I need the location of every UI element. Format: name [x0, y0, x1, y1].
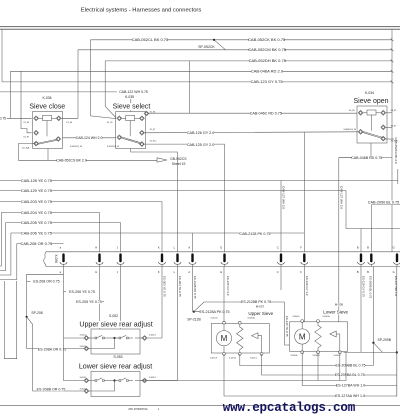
svg-text:M-036: M-036: [335, 303, 344, 307]
terminal 85 K-036: [56, 116, 61, 121]
svg-text:X-457-B: X-457-B: [229, 358, 237, 360]
wire drop pin H: [99, 213, 101, 252]
label K-036: [42, 96, 52, 100]
relay coil K-036: [43, 116, 52, 121]
label ES-206: [69, 290, 95, 294]
label ES-127AA: [336, 394, 364, 398]
svg-text:G: G: [393, 245, 395, 249]
svg-text:H: H: [95, 270, 97, 274]
junction right low: [396, 351, 398, 353]
svg-text:ES-208B OR 0.75: ES-208B OR 0.75: [37, 387, 66, 391]
label CAB-205 YE 0.75: [21, 221, 52, 225]
wire left riser b to K-036 87: [21, 71, 32, 133]
footer rule: [0, 404, 400, 406]
junction S-053: [113, 379, 115, 381]
motor box M-036: [290, 322, 348, 352]
wire drop pin A: [192, 233, 194, 252]
svg-text:A: A: [188, 270, 190, 274]
svg-text:CAB-208 OR 0.75: CAB-208 OR 0.75: [21, 241, 54, 246]
motor symbol M-037: [216, 331, 231, 346]
svg-text:X-656-A: X-656-A: [323, 315, 331, 318]
wire pin C drop: [280, 267, 282, 291]
wire K-034 87A out: [385, 138, 394, 140]
wire ES-209B drop: [372, 267, 374, 366]
svg-text:X-652-2: X-652-2: [80, 346, 87, 348]
terminal 87 K-035: [140, 130, 145, 135]
wire riser e diagonal to K-035: [105, 61, 116, 118]
label S-053: [113, 355, 123, 359]
label ES-127BA: [337, 384, 365, 388]
svg-text:Electrical systems - Harnesses: Electrical systems - Harnesses and conne…: [81, 7, 202, 13]
svg-text:ES-127 WH 1.0: ES-127 WH 1.0: [394, 276, 398, 296]
label CAB-206 YE 0.75: [21, 231, 52, 235]
resistor M-036: [315, 322, 321, 352]
svg-text:X-6025-K2_30: X-6025-K2_30: [70, 146, 82, 148]
terminal 86 K-035: [117, 116, 122, 121]
connector pin B x=371.3: [370, 253, 372, 262]
relay switch arm K-034: [361, 132, 383, 139]
relay switch arm K-035: [119, 137, 141, 144]
svg-text:ES-128 GY 0.75: ES-128 GY 0.75: [362, 276, 366, 297]
wire coil left: [358, 112, 367, 114]
wire lower bot3 drop: [339, 353, 341, 381]
terminal left2 S-052: [84, 346, 89, 351]
wire left exit CAB-204: [0, 213, 1, 267]
connector pin C x=281: [280, 253, 282, 262]
leader ES-206: [64, 291, 67, 293]
svg-text:K1_87: K1_87: [150, 129, 155, 131]
wire ES-127AA: [224, 354, 397, 396]
title Sieve close: [28, 103, 67, 110]
terminal 86 K-036: [34, 116, 39, 121]
terminal M-037 bot3: [260, 353, 263, 356]
svg-text:CAB-052CL BK 0.75: CAB-052CL BK 0.75: [132, 37, 169, 42]
wire K-035 coil feed: [130, 99, 132, 112]
connector pin B x=361: [360, 253, 362, 262]
wire coil right: [135, 117, 145, 119]
wire CAB-127 riser: [338, 158, 340, 322]
label CAB-046B: [352, 156, 382, 160]
title Sieve select: [110, 103, 153, 110]
svg-text:Upper Sieve: Upper Sieve: [248, 311, 273, 316]
relay box K-036: [33, 112, 63, 149]
terminal left1 S-053: [84, 378, 89, 383]
svg-text:X-457-D: X-457-D: [210, 318, 218, 320]
svg-text:CAB-127 WH 2.0: CAB-127 WH 2.0: [340, 186, 344, 209]
svg-text:K2_86: K2_86: [67, 122, 72, 124]
wire S-053 right run: [141, 352, 346, 380]
svg-text:K4_87A: K4_87A: [391, 139, 398, 142]
switch box S-052: [91, 329, 140, 354]
svg-text:X-656-B: X-656-B: [313, 355, 321, 357]
connector pin A x=192.5: [191, 253, 193, 262]
terminal 86 K-034: [358, 110, 363, 115]
wire ES-205 drop: [99, 267, 101, 330]
label SP-052CK: [199, 45, 214, 49]
label CAB-124: [76, 136, 102, 140]
wire coil right: [376, 112, 386, 114]
svg-text:CAB-052CM BK 0.75: CAB-052CM BK 0.75: [248, 47, 287, 52]
svg-text:CAB-052DH BK 0.75: CAB-052DH BK 0.75: [249, 58, 287, 63]
wire CAB-046A: [11, 70, 393, 72]
wire drop pin J: [120, 223, 122, 252]
wire: [109, 337, 119, 339]
wire left riser a: [10, 71, 12, 118]
label CAB-122: [120, 90, 147, 94]
svg-text:CAB-206 YE 0.75: CAB-206 YE 0.75: [21, 230, 53, 235]
svg-text:B: B: [367, 245, 369, 249]
svg-text:ES-129 GY 1.0: ES-129 GY 1.0: [305, 276, 309, 296]
leader ES-205: [100, 301, 105, 303]
wire lower bot2 drop: [317, 353, 319, 381]
wire CAB-046B left leg: [339, 143, 371, 158]
terminal M-037 bot1: [223, 353, 226, 356]
wire ES-203 drop: [161, 267, 163, 339]
svg-text:B: B: [357, 270, 359, 274]
label CAB-125: [187, 143, 214, 147]
label K-034: [365, 91, 375, 95]
label SP-208: [31, 311, 43, 315]
label SP-212B: [187, 318, 200, 322]
svg-text:X-457-E: X-457-E: [210, 358, 218, 360]
svg-text:X-096: X-096: [54, 254, 58, 263]
terminal 30 K-034: [358, 129, 363, 134]
wire ES-129 drop: [284, 302, 289, 345]
svg-text:CAB-052CK BK 0.75: CAB-052CK BK 0.75: [248, 37, 286, 42]
terminal 30 K-035: [117, 135, 122, 140]
svg-text:X-660D-K4_30: X-660D-K4_30: [343, 129, 356, 131]
svg-text:ES-206 YE 0.75: ES-206 YE 0.75: [69, 290, 95, 294]
wire riser CAB-046C: [189, 61, 191, 113]
terminal M-036 bot1: [301, 351, 304, 354]
svg-text:X-656-E: X-656-E: [291, 355, 299, 357]
terminal 87 K-036: [34, 130, 39, 135]
wire riser pin F: [303, 133, 305, 252]
connector X-096 housing: [44, 252, 400, 267]
svg-text:ES-129 YE 0.75: ES-129 YE 0.75: [285, 316, 289, 337]
terminal 87a K-036: [56, 137, 61, 142]
svg-text:M-037: M-037: [256, 304, 265, 308]
svg-text:C: C: [277, 270, 279, 274]
svg-text:K1_87a: K1_87a: [150, 140, 157, 142]
wire coil right: [52, 117, 62, 119]
svg-text:ES-125 GY 2.0: ES-125 GY 2.0: [226, 276, 230, 296]
svg-text:Lower sieve rear adjust: Lower sieve rear adjust: [79, 363, 152, 371]
svg-text:SP-209B: SP-209B: [378, 338, 392, 342]
terminal M-036 top1: [301, 320, 304, 323]
svg-text:CAB-046B RD 0.75: CAB-046B RD 0.75: [351, 156, 382, 160]
wire to S-053 right: [141, 380, 177, 382]
label CAB-2090: [368, 201, 399, 205]
label K-035: [125, 95, 135, 99]
wire CAB-052CM: [78, 49, 392, 51]
svg-text:www.epcatalogs.com: www.epcatalogs.com: [223, 401, 356, 415]
wire left exit CAB-205: [0, 223, 6, 271]
wire coil left: [34, 117, 43, 119]
label ES-208: [33, 280, 59, 284]
svg-text:SP-208: SP-208: [31, 311, 42, 315]
terminal K-035 r1: [144, 111, 149, 116]
splice SP-208: [26, 316, 28, 318]
terminal right S-053: [142, 378, 147, 383]
label CAB-046A: [252, 69, 283, 73]
svg-text:ES-203 YE 0.75: ES-203 YE 0.75: [163, 276, 167, 297]
svg-text:ES-209BA BL 0.75: ES-209BA BL 0.75: [335, 373, 365, 377]
splice SP-209B: [372, 342, 374, 344]
terminal 87A K-035: [140, 142, 145, 147]
wire dogleg CAB-129: [346, 191, 400, 229]
off-sheet arrow GB-052CS: [157, 158, 167, 162]
title Upper sieve rear adjust: [75, 321, 157, 328]
wire CAB-052CL/CK: [91, 39, 393, 41]
relay coil stem K-034: [371, 115, 373, 131]
wire right edge riser: [391, 30, 393, 252]
wire drop pin B1: [360, 229, 362, 252]
wire: [91, 381, 115, 392]
svg-text:K-035: K-035: [125, 95, 134, 99]
label ES-2128A: [200, 310, 230, 314]
svg-text:ES-127AA WH 1.0: ES-127AA WH 1.0: [335, 394, 365, 398]
svg-text:A: A: [188, 245, 190, 249]
wire ES-208B: [27, 317, 85, 391]
wire ES-209BB: [240, 354, 374, 366]
wire riser d diagonal to K-035: [91, 40, 117, 119]
svg-text:CAB-046C RD 0.75: CAB-046C RD 0.75: [250, 111, 282, 115]
label CAB-203 YE 0.75: [21, 200, 52, 204]
wire ES-209BA: [262, 354, 397, 375]
svg-text:K: K: [158, 245, 160, 249]
svg-text:K2_87: K2_87: [24, 136, 29, 138]
relay coil K-034: [367, 110, 376, 115]
title Sieve open: [353, 97, 389, 104]
wire CAB-124: [63, 137, 116, 139]
svg-text:CAB-123 GY 0.75: CAB-123 GY 0.75: [251, 79, 284, 84]
svg-text:GB-052CS: GB-052CS: [170, 157, 187, 161]
relay coil stem K-036: [46, 121, 48, 137]
wire coil left: [117, 117, 126, 119]
terminal M-036 top2: [317, 320, 320, 323]
svg-text:CAB-204 YE 0.75: CAB-204 YE 0.75: [21, 210, 53, 215]
label left cut 0.75: [0, 117, 7, 120]
label CAB-052CS: [57, 159, 86, 163]
wire SP-209B diagonal: [373, 343, 382, 353]
terminal 85 K-034: [381, 110, 386, 115]
label CAB-204 YE 0.75: [21, 211, 52, 215]
title Lower sieve rear adjust: [75, 363, 157, 370]
svg-text:CAB-2128 PK 0.75: CAB-2128 PK 0.75: [239, 232, 270, 236]
label CAB-128 YE 0.75: [21, 179, 52, 183]
svg-text:B: B: [367, 270, 369, 274]
svg-text:CAB-122 WH 0.75: CAB-122 WH 0.75: [119, 90, 148, 94]
wire ES-208A: [27, 317, 85, 349]
terminal M-036 bot3: [338, 351, 341, 354]
wire: [135, 337, 143, 339]
connector pin E x=224.5: [223, 253, 225, 262]
label CAB-052CL: [133, 38, 168, 42]
svg-text:K4_86: K4_86: [349, 110, 354, 112]
wire left exit CAB-206: [0, 233, 11, 275]
svg-text:SP-212B: SP-212B: [187, 317, 201, 321]
wire CAB-128 YE 0.75: [0, 180, 398, 182]
relay switch arm K-036: [36, 139, 58, 144]
svg-text:H: H: [95, 245, 97, 249]
connector ticks right edge: [391, 38, 394, 41]
wire CAB-205 YE 0.75: [6, 222, 121, 224]
wire ES-127BA: [302, 353, 397, 386]
label M-037: [256, 305, 265, 308]
svg-text:ES-208 OR 0.75: ES-208 OR 0.75: [33, 280, 59, 284]
terminal M-037 bot2: [238, 353, 241, 356]
svg-text:M: M: [221, 334, 228, 343]
connector pin J x=120.5: [119, 253, 121, 262]
wire pin B drop: [360, 267, 362, 353]
terminal 87A K-034: [381, 136, 386, 141]
svg-text:E: E: [220, 245, 222, 249]
wire left exit CAB-208: [0, 244, 17, 280]
wire ES-208 upper leg: [27, 274, 64, 317]
terminal left2 S-053: [84, 389, 89, 394]
splice SP-052CK: [213, 39, 215, 41]
label CAB-046C: [251, 111, 282, 115]
svg-text:X-652-3: X-652-3: [149, 335, 156, 337]
wire ES-127 drop: [396, 267, 398, 397]
svg-text:0.75: 0.75: [0, 117, 6, 121]
wire K-035 30 to pin L: [131, 149, 178, 252]
svg-text:K2_30A: K2_30A: [22, 146, 29, 149]
connector pin G x=397: [396, 253, 398, 262]
relay box K-035: [116, 112, 146, 149]
diode M-037: [252, 333, 258, 339]
svg-text:ES-205 YE 0.75: ES-205 YE 0.75: [76, 300, 102, 304]
connector pin F x=304.3: [303, 253, 305, 262]
wire ES-204 drop: [177, 267, 179, 381]
wire bottom-left loop: [4, 281, 16, 359]
connector pin a x=63.5: [62, 253, 64, 262]
wire: [135, 380, 143, 382]
wire CAB-126 to K-034 arm: [144, 132, 361, 133]
terminal left1 S-052: [84, 336, 89, 341]
label CAB-052CK: [249, 38, 284, 42]
wire stub to K-036 right terminal: [61, 117, 78, 119]
svg-text:CAB-124 WH 2.0: CAB-124 WH 2.0: [76, 136, 103, 140]
svg-text:E: E: [220, 270, 222, 274]
wire drop pin C: [280, 181, 282, 252]
svg-text:CAB-2090 BL 0.75: CAB-2090 BL 0.75: [368, 201, 400, 205]
svg-text:K1_85: K1_85: [107, 122, 112, 124]
label ES-2128B: [241, 300, 271, 304]
label CAB-2128: [240, 232, 271, 236]
svg-text:ES-204 YE 0.75: ES-204 YE 0.75: [178, 276, 182, 297]
svg-text:SP-052CK: SP-052CK: [198, 45, 215, 49]
wire: [88, 390, 91, 392]
label ES-208B: [37, 387, 65, 391]
svg-text:CAB-126 GY 2.0: CAB-126 GY 2.0: [187, 131, 214, 135]
wire to S-052 right: [141, 337, 162, 339]
svg-text:M: M: [299, 332, 306, 341]
wire pin E to motor: [223, 267, 225, 323]
label S-052: [109, 314, 119, 318]
svg-text:ZXU 070300TbVA: ZXU 070300TbVA: [128, 408, 148, 411]
terminal M-036 bot2: [317, 351, 320, 354]
relay coil K-035: [126, 116, 135, 121]
splice SP-212B: [193, 311, 195, 313]
wire CAB-046B: [339, 157, 392, 159]
label CAB-208 OR 0.75: [21, 242, 52, 246]
wire to S-053 left1: [64, 338, 85, 381]
wire drop to S-052 top: [120, 267, 122, 330]
svg-text:S-052: S-052: [109, 314, 118, 318]
wire CAB-129 YE 0.75: [0, 190, 346, 192]
svg-text:ES-209B BL 0.75: ES-209B BL 0.75: [369, 276, 373, 299]
svg-text:ES-127BA WH 1.0: ES-127BA WH 1.0: [336, 384, 366, 388]
svg-text:CAB-052CS BK 2.0: CAB-052CS BK 2.0: [56, 159, 87, 163]
junction S-052: [113, 337, 115, 339]
wire right edge stub: [397, 169, 399, 184]
svg-text:K-036: K-036: [42, 96, 51, 100]
wire: [88, 380, 96, 382]
wire ES-2128A: [194, 311, 225, 313]
wire K-034 87 out: [385, 126, 392, 128]
wire K-036 86 feed: [0, 117, 32, 119]
terminal 30 K-036: [34, 141, 39, 146]
wire: [91, 338, 115, 349]
wire ES-212B drop: [192, 267, 194, 312]
label ES-209BA: [335, 373, 365, 377]
motor symbol M-036: [295, 329, 310, 344]
connector pin L x=177.5: [176, 253, 178, 262]
svg-text:CAB-203 YE 0.75: CAB-203 YE 0.75: [21, 199, 53, 204]
wire: [109, 380, 119, 382]
label ES-205: [76, 300, 102, 304]
wire CAB-2090: [371, 204, 400, 206]
switch box S-053: [91, 372, 140, 397]
svg-text:K4_85: K4_85: [391, 110, 396, 112]
wire CAB-125 to pin E: [144, 144, 225, 252]
wire ES-206 drop: [63, 267, 65, 339]
svg-text:G: G: [393, 270, 395, 274]
wire drop pin K: [161, 202, 163, 252]
connector pin H x=99.5: [98, 253, 100, 262]
relay coil stem K-035: [129, 121, 131, 137]
svg-text:ES-212B PK 0.75: ES-212B PK 0.75: [193, 276, 197, 299]
svg-text:ES-208A OR 0.75: ES-208A OR 0.75: [38, 347, 67, 351]
switch contacts S-052: [95, 337, 97, 339]
svg-text:X-457-C: X-457-C: [250, 358, 258, 360]
label CAB-052CM: [250, 48, 285, 52]
terminal M-037 top1: [223, 321, 226, 324]
label M-036: [335, 303, 344, 306]
svg-text:Upper sieve rear adjust: Upper sieve rear adjust: [79, 321, 152, 329]
svg-text:X-653-3: X-653-3: [149, 377, 156, 379]
svg-text:X-653-2: X-653-2: [80, 389, 87, 391]
svg-text:X-656-D: X-656-D: [292, 316, 300, 318]
terminal 87 K-034: [381, 125, 386, 130]
title Upper Sieve: [248, 311, 274, 316]
svg-text:ES-2128A PK 0.75: ES-2128A PK 0.75: [200, 310, 230, 314]
title Lower Sieve: [323, 310, 349, 315]
wire K-034 85 out: [386, 112, 392, 114]
svg-text:K2_86: K2_86: [24, 122, 29, 124]
svg-text:S-053: S-053: [113, 355, 122, 359]
label CAB-126: [187, 131, 214, 135]
wire: [88, 337, 96, 339]
svg-text:Lower Sieve: Lower Sieve: [323, 309, 348, 314]
svg-text:X-6025-K1_30: X-6025-K1_30: [107, 146, 119, 148]
svg-text:X-653-1: X-653-1: [80, 377, 87, 379]
wire pin F drop: [303, 267, 305, 322]
wire CAB-203 YE 0.75: [0, 201, 162, 203]
svg-text:C: C: [277, 245, 279, 249]
